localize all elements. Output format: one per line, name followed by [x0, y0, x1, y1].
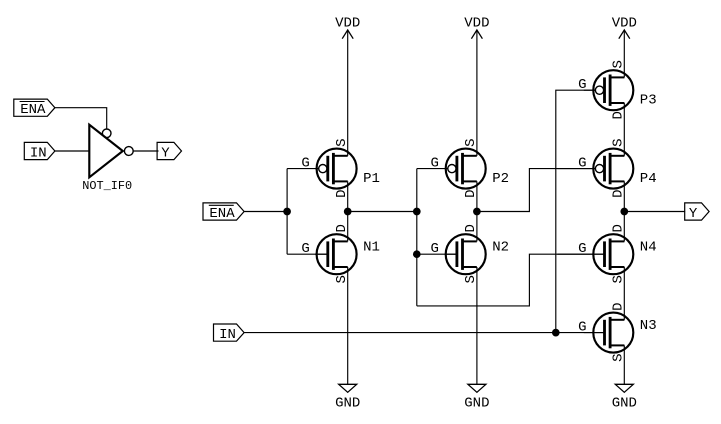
power symbol VDD (column 2) — [464, 16, 489, 39]
svg-text:S: S — [334, 138, 350, 146]
node junction ENA/gate rail 1 — [283, 208, 291, 216]
ground symbol GND (column 1) — [335, 384, 360, 411]
transistor P1 (PMOS) — [301, 138, 380, 197]
node junction drains P2/N2 — [473, 208, 481, 216]
svg-text:N4: N4 — [640, 240, 657, 256]
svg-text:P3: P3 — [640, 92, 657, 108]
wire inverter output to Y — [133, 150, 158, 152]
pin flag Y (symbol output) — [157, 142, 181, 161]
wire IN net up to P3 gate — [556, 90, 596, 332]
pin flag IN (schematic input) — [214, 324, 245, 343]
wire VDD3 to P3 source — [623, 30, 625, 77]
svg-text:S: S — [463, 138, 479, 146]
wire to N1 gate — [287, 253, 328, 255]
svg-text:NOT_IF0: NOT_IF0 — [82, 179, 132, 193]
wire to N2 gate — [417, 253, 457, 255]
svg-text:G: G — [578, 77, 586, 93]
svg-text:D: D — [463, 189, 479, 197]
wire to P2 gate — [417, 168, 448, 170]
svg-text:D: D — [611, 189, 627, 197]
svg-text:N3: N3 — [640, 318, 657, 334]
wire node2 to P4 gate — [477, 169, 596, 212]
svg-text:S: S — [611, 275, 627, 283]
wire ENA to enable bubble — [55, 108, 107, 129]
svg-text:Y: Y — [689, 206, 698, 222]
wire N4 source to N3 drain — [623, 267, 625, 320]
wire P3 drain to P4 source — [623, 103, 625, 156]
wire to P1 gate — [287, 168, 319, 170]
node junction drains P1/N1 — [344, 208, 352, 216]
wire column-2 gate rail vertical — [416, 169, 418, 306]
svg-text:G: G — [301, 241, 309, 257]
enable bubble on inverter — [102, 129, 111, 138]
svg-text:G: G — [578, 156, 586, 172]
wire gate rail 2 to N4 gate — [417, 254, 605, 306]
svg-text:S: S — [611, 60, 627, 68]
transistor P2 (PMOS) — [430, 138, 509, 197]
wire Y node to Y flag — [624, 211, 685, 213]
svg-text:Y: Y — [161, 145, 170, 161]
node junction gate rail 2 at N2 gate — [413, 250, 421, 258]
wire ENA flag to gate rail junction — [244, 211, 287, 213]
svg-text:D: D — [611, 302, 627, 310]
wire IN to inverter — [55, 150, 89, 152]
svg-text:GND: GND — [335, 395, 360, 411]
power symbol VDD (column 1) — [335, 16, 360, 39]
output bubble — [124, 147, 133, 156]
node junction Y — [620, 208, 628, 216]
ground symbol GND (column 3) — [612, 384, 637, 411]
svg-text:S: S — [334, 275, 350, 283]
node junction gate rail 2 mid — [413, 208, 421, 216]
svg-text:D: D — [611, 111, 627, 119]
wire VDD2 to P2 source — [476, 30, 478, 156]
svg-text:IN: IN — [219, 327, 236, 343]
transistor N2 (NMOS) — [430, 224, 509, 283]
wire P2 drain to N2 drain — [476, 181, 478, 241]
svg-text:D: D — [334, 189, 350, 197]
pin flag ENA (schematic input) — [203, 203, 244, 222]
transistor P3 (PMOS) — [578, 60, 657, 119]
wire N3 source to GND3 — [623, 345, 625, 384]
ground symbol GND (column 2) — [464, 384, 489, 411]
svg-text:D: D — [611, 224, 627, 232]
svg-text:ENA: ENA — [209, 206, 235, 222]
svg-text:P1: P1 — [363, 171, 380, 187]
svg-text:N2: N2 — [492, 240, 509, 256]
wire P1 drain to N1 drain — [347, 181, 349, 241]
node junction IN / P3 gate net — [552, 329, 560, 337]
svg-text:G: G — [430, 156, 438, 172]
svg-text:GND: GND — [464, 395, 489, 411]
wire N2 source to GND2 — [476, 267, 478, 384]
svg-text:G: G — [578, 320, 586, 336]
inverter triangle NOT_IF0 — [89, 125, 123, 178]
svg-text:S: S — [611, 353, 627, 361]
transistor P4 (PMOS) — [557, 138, 656, 197]
label NOT_IF0 — [82, 179, 132, 193]
pin flag Y (schematic output) — [685, 203, 709, 222]
svg-text:S: S — [611, 138, 627, 146]
svg-text:G: G — [301, 156, 309, 172]
svg-text:ENA: ENA — [20, 102, 46, 118]
svg-text:G: G — [578, 241, 586, 257]
svg-text:IN: IN — [30, 145, 47, 161]
pin flag IN (symbol input) — [24, 142, 55, 161]
svg-text:S: S — [463, 275, 479, 283]
svg-text:P2: P2 — [492, 171, 509, 187]
svg-text:P4: P4 — [640, 171, 657, 187]
svg-text:G: G — [430, 241, 438, 257]
wire VDD1 to P1 source — [347, 30, 349, 156]
wire N1 source to GND1 — [347, 267, 349, 384]
power symbol VDD (column 3) — [612, 16, 637, 39]
svg-text:N1: N1 — [363, 240, 380, 256]
transistor N4 (NMOS) — [557, 224, 656, 283]
pin flag ENA (symbol input, active-low) — [14, 99, 55, 118]
svg-text:GND: GND — [612, 395, 637, 411]
svg-text:D: D — [463, 224, 479, 232]
wire P4 drain to N4 drain — [623, 181, 625, 241]
transistor N1 (NMOS) — [301, 224, 380, 283]
transistor N3 (NMOS) — [578, 302, 657, 361]
wire node1 to column-2 gate rail — [348, 211, 417, 213]
wire IN flag to N3 gate — [244, 332, 604, 334]
wire column-1 gate rail vertical — [286, 169, 288, 255]
svg-text:D: D — [334, 224, 350, 232]
